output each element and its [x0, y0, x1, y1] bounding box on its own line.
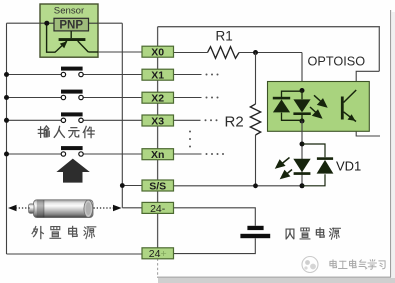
node arrow to left bus	[8, 205, 17, 212]
wire: PNP left lead to left bus	[7, 22, 55, 24]
wire: dashed bus below 24+	[157, 259, 159, 277]
wire: LED branch drop	[301, 53, 303, 91]
wire: X0 row from sensor collector	[98, 51, 143, 53]
svg-text:Sensor: Sensor	[54, 6, 85, 17]
node bus junction Xn	[4, 152, 9, 157]
terminal Xn	[142, 149, 174, 161]
transistor Q1 (PNP)	[47, 23, 98, 52]
node R1 output junction	[253, 50, 258, 55]
wire: LED branch to VD1	[301, 121, 303, 186]
label 输入元件 (input elements)	[38, 126, 94, 138]
node VD1 bottom junction	[300, 183, 305, 188]
light arrows to phototransistor	[310, 95, 326, 117]
diode LED up (opto)	[273, 97, 290, 113]
wire: drop to 24- terminal	[122, 207, 143, 209]
diode LED indicator (down)	[293, 159, 310, 175]
wire: left vertical bus	[6, 23, 8, 254]
sensor box	[40, 4, 98, 57]
light arrows from indicator LED	[276, 158, 292, 179]
page frame right border	[391, 10, 395, 278]
terminal 24-	[142, 202, 174, 214]
wire: X2 row dots lead	[172, 97, 202, 99]
svg-text:X2: X2	[151, 93, 164, 105]
wire: S/S left lead	[122, 185, 143, 187]
node arrow to 24- drop	[113, 205, 122, 212]
page frame bottom border and shadow	[157, 277, 395, 283]
big up arrow marker	[56, 159, 89, 183]
wire: dashed external supply left	[16, 207, 31, 209]
wire: switch row X3 left	[7, 119, 62, 121]
node bus junction X1	[4, 72, 9, 77]
node S/S left junction	[120, 183, 125, 188]
watermark text 电工电气学习	[330, 260, 385, 270]
node bus junction X2	[4, 95, 9, 100]
svg-text:24-: 24-	[150, 203, 166, 215]
wire: PNP leads inside sensor	[40, 22, 54, 24]
wire: switch row X2 left	[7, 97, 62, 99]
wire: dashed external supply right	[94, 207, 114, 209]
label 外置电源 (external power)	[32, 226, 96, 238]
wire: switch row X2 right	[83, 97, 143, 99]
diode LED down (opto)	[293, 91, 310, 122]
svg-text:R2: R2	[225, 114, 244, 131]
wire: switch row X1 right	[83, 74, 143, 76]
wire: R1 to LED branch	[239, 52, 302, 54]
svg-text:Xn: Xn	[151, 149, 164, 161]
label 内置电源 (internal power)	[286, 228, 340, 239]
wire: PNP right lead	[89, 22, 123, 24]
svg-text:OPTOISO: OPTOISO	[308, 55, 366, 69]
wire: Xn row dots lead	[172, 153, 202, 155]
terminal X2	[142, 92, 174, 104]
wire: 24- to internal supply	[172, 208, 255, 226]
svg-text:S/S: S/S	[149, 180, 166, 192]
wire: emitter stub	[356, 121, 380, 136]
node vertical ellipsis between X3 and Xn	[189, 131, 191, 148]
wire: top return wire	[158, 27, 380, 72]
diode VD1 (up)	[317, 157, 334, 173]
wire: X0 to R1	[173, 52, 208, 54]
external battery photo	[29, 200, 93, 218]
wire: S/S right rail	[172, 185, 302, 187]
node ellipsis X2	[206, 97, 219, 99]
terminal X0	[142, 46, 174, 58]
node LED top junction	[300, 88, 305, 93]
pushbutton switch row X2	[61, 90, 83, 100]
wire: X1 row dots lead	[172, 74, 202, 76]
phototransistor	[342, 90, 356, 122]
wire: internal supply to 24+	[172, 238, 255, 253]
pushbutton switch row X3	[61, 112, 83, 122]
wire: divider vertical R1 junction to R2	[255, 53, 257, 105]
wire: switch row X1 left	[7, 74, 62, 76]
node R2 bottom junction	[253, 183, 258, 188]
node ellipsis Xn	[206, 153, 225, 155]
wire: VD1 loop	[302, 144, 325, 157]
watermark logo	[302, 257, 318, 273]
node LED bottom junction	[300, 119, 305, 124]
node VD1 top junction	[300, 142, 305, 147]
pushbutton switch row Xn	[61, 146, 83, 156]
svg-text:X0: X0	[151, 47, 164, 59]
wire: sensor common vertical to S/S	[121, 23, 123, 208]
node bus junction X3	[4, 118, 9, 123]
pushbutton switch row X1	[61, 67, 83, 77]
wire: R2 bottom to S/S rail	[255, 135, 257, 186]
PNP label box	[54, 18, 89, 31]
node ellipsis X3	[205, 119, 218, 121]
terminal X1	[142, 69, 174, 81]
wire: switch row Xn left	[7, 153, 62, 155]
wire: switch row X3 right	[83, 119, 143, 121]
terminal 24+	[142, 248, 174, 260]
node sensor supply junction	[44, 21, 49, 26]
wire: terminal bus vertical	[157, 27, 159, 259]
wire: switch row Xn right	[83, 153, 143, 155]
svg-text:X3: X3	[151, 115, 164, 127]
resistor R1	[208, 29, 240, 59]
optocoupler U1 box	[268, 55, 370, 132]
svg-text:24+: 24+	[149, 248, 167, 260]
wire: LED bracket	[282, 91, 303, 97]
svg-text:X1: X1	[151, 70, 164, 82]
wire: bottom wire to 24+ terminal	[7, 253, 144, 255]
terminal S/S	[142, 180, 174, 192]
wire: collector stub	[356, 71, 379, 90]
wire: X3 row dots lead	[172, 119, 201, 121]
terminal X3	[142, 115, 174, 127]
svg-text:R1: R1	[216, 29, 233, 44]
resistor R2	[225, 104, 261, 135]
svg-text:VD1: VD1	[336, 159, 361, 174]
node ellipsis X1	[206, 74, 219, 76]
internal battery	[240, 226, 270, 238]
svg-text:PNP: PNP	[59, 20, 83, 32]
